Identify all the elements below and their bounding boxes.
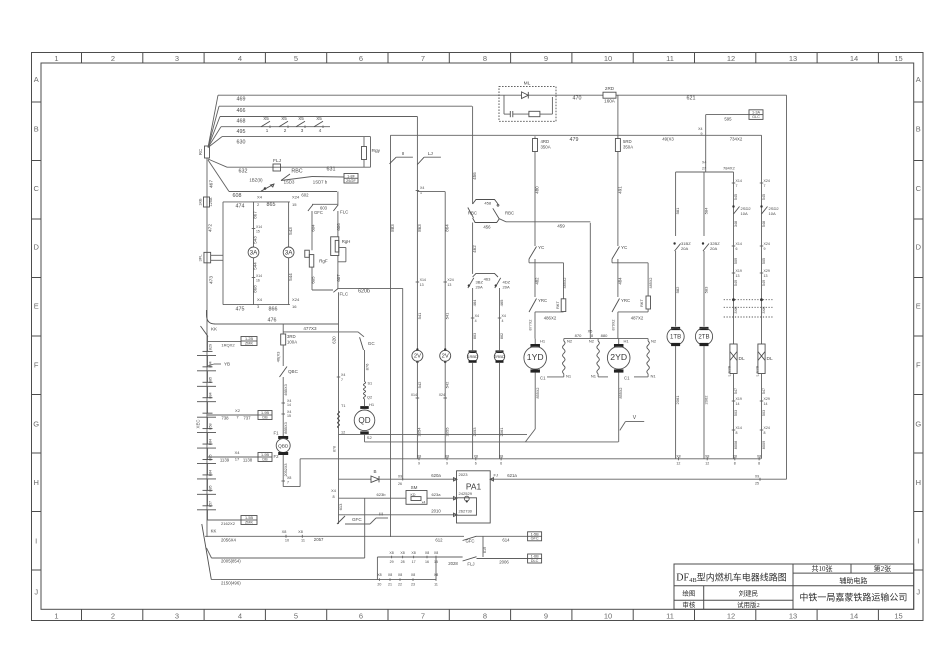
svg-text:GFC: GFC — [352, 517, 362, 522]
svg-text:465: 465 — [499, 299, 504, 307]
svg-text:G: G — [915, 420, 921, 429]
svg-text:456: 456 — [472, 172, 477, 180]
svg-text:X14: X14 — [736, 179, 742, 183]
svg-text:2RD: 2RD — [605, 86, 615, 91]
svg-text:29/2F: 29/2F — [346, 179, 356, 183]
svg-text:474: 474 — [236, 204, 245, 210]
svg-text:884: 884 — [209, 470, 213, 476]
svg-text:X14: X14 — [256, 225, 262, 229]
svg-text:864: 864 — [445, 224, 450, 232]
svg-text:503: 503 — [762, 410, 766, 416]
svg-text:X14: X14 — [411, 393, 417, 397]
svg-text:863: 863 — [473, 333, 477, 339]
svg-text:X5: X5 — [588, 330, 593, 334]
svg-text:46BX3: 46BX3 — [284, 384, 288, 395]
svg-text:545: 545 — [734, 194, 738, 200]
svg-text:YRC: YRC — [538, 298, 547, 303]
svg-text:544: 544 — [253, 262, 258, 270]
svg-text:855X2: 855X2 — [619, 388, 623, 399]
svg-text:1BZ(9): 1BZ(9) — [249, 178, 263, 183]
svg-text:475: 475 — [236, 307, 245, 313]
svg-text:第2张: 第2张 — [874, 564, 892, 573]
svg-text:X5: X5 — [298, 116, 304, 121]
svg-text:49(X3: 49(X3 — [662, 137, 674, 142]
svg-text:F: F — [916, 361, 921, 370]
svg-text:8: 8 — [483, 54, 487, 63]
svg-text:FLC: FLC — [340, 292, 349, 297]
svg-text:Rgy: Rgy — [372, 148, 381, 154]
svg-text:11: 11 — [301, 539, 305, 543]
svg-text:X4: X4 — [702, 161, 706, 165]
svg-text:863: 863 — [417, 224, 422, 232]
svg-text:X8: X8 — [377, 573, 381, 577]
svg-text:X8: X8 — [434, 551, 438, 555]
svg-text:7: 7 — [421, 54, 425, 63]
svg-text:2056X4: 2056X4 — [221, 538, 236, 543]
svg-text:16: 16 — [256, 279, 260, 283]
svg-text:X4: X4 — [341, 373, 345, 377]
svg-text:2053: 2053 — [472, 427, 477, 437]
svg-text:877X2: 877X2 — [529, 320, 533, 331]
svg-text:GFC: GFC — [314, 210, 323, 215]
svg-text:480: 480 — [535, 186, 540, 194]
svg-text:H1: H1 — [369, 402, 375, 407]
svg-text:623a: 623a — [431, 492, 441, 497]
svg-text:FLJ: FLJ — [273, 158, 282, 164]
svg-text:DLC: DLC — [531, 559, 539, 563]
svg-text:29: 29 — [390, 560, 394, 564]
svg-text:SM: SM — [411, 485, 418, 490]
svg-text:544: 544 — [288, 273, 293, 281]
svg-text:X8: X8 — [425, 551, 429, 555]
svg-text:15: 15 — [292, 202, 297, 207]
svg-text:1SD3: 1SD3 — [284, 180, 295, 185]
svg-text:12: 12 — [727, 54, 735, 63]
svg-text:548: 548 — [762, 221, 766, 227]
svg-text:11: 11 — [666, 611, 674, 620]
svg-text:X8: X8 — [445, 455, 449, 459]
svg-text:A: A — [916, 75, 921, 84]
svg-text:86BX3: 86BX3 — [284, 422, 288, 433]
svg-text:2YD: 2YD — [610, 352, 627, 362]
svg-text:Q2: Q2 — [367, 396, 372, 400]
svg-text:X4: X4 — [502, 314, 506, 318]
svg-text:543: 543 — [253, 236, 258, 244]
svg-text:RBC: RBC — [505, 211, 514, 216]
svg-text:DL: DL — [739, 356, 745, 362]
svg-text:621: 621 — [687, 96, 696, 102]
svg-text:X4: X4 — [698, 127, 702, 131]
svg-text:549: 549 — [734, 280, 738, 286]
svg-text:5: 5 — [294, 611, 298, 620]
svg-text:1: 1 — [54, 54, 58, 63]
svg-text:486X2: 486X2 — [544, 316, 557, 321]
svg-text:QBD: QBD — [278, 443, 289, 449]
svg-text:LJ: LJ — [428, 151, 434, 157]
svg-text:880: 880 — [601, 333, 609, 338]
svg-text:784X2: 784X2 — [723, 166, 735, 171]
svg-text:X19: X19 — [736, 269, 742, 273]
svg-text:2V: 2V — [442, 354, 449, 360]
svg-text:12: 12 — [705, 462, 709, 466]
svg-text:X9: X9 — [398, 475, 402, 479]
svg-text:485X2: 485X2 — [649, 278, 653, 289]
svg-text:x4: x4 — [422, 501, 426, 505]
svg-text:608: 608 — [233, 193, 242, 199]
svg-text:3A: 3A — [285, 249, 294, 256]
svg-text:1: 1 — [266, 128, 269, 133]
svg-text:X9: X9 — [755, 474, 759, 478]
svg-text:1YD: 1YD — [527, 352, 544, 362]
svg-text:8008: 8008 — [734, 441, 738, 449]
svg-text:15: 15 — [256, 230, 260, 234]
svg-text:X5: X5 — [263, 116, 269, 121]
svg-text:876: 876 — [364, 363, 369, 371]
svg-text:I: I — [917, 537, 919, 546]
svg-text:495: 495 — [237, 129, 246, 135]
svg-text:X24: X24 — [764, 426, 770, 430]
svg-text:20A: 20A — [503, 284, 511, 289]
svg-text:487X2: 487X2 — [631, 316, 644, 321]
svg-text:绘图: 绘图 — [682, 589, 695, 598]
svg-text:10: 10 — [604, 54, 612, 63]
svg-text:10A: 10A — [741, 211, 749, 216]
svg-text:1138: 1138 — [243, 458, 253, 463]
svg-text:YC: YC — [621, 245, 628, 250]
svg-text:584: 584 — [704, 207, 709, 215]
svg-text:X8: X8 — [282, 530, 287, 534]
svg-text:1TB: 1TB — [670, 334, 681, 341]
svg-text:C1: C1 — [624, 376, 630, 381]
svg-text:14: 14 — [736, 402, 740, 406]
svg-text:F1: F1 — [273, 431, 279, 436]
svg-text:J: J — [34, 588, 38, 597]
svg-text:X8: X8 — [705, 455, 709, 459]
svg-text:9: 9 — [446, 462, 448, 466]
svg-text:YRC: YRC — [621, 298, 630, 303]
svg-text:X4: X4 — [331, 489, 336, 493]
svg-text:X5: X5 — [316, 116, 322, 121]
svg-text:DL: DL — [767, 356, 773, 362]
svg-text:8: 8 — [764, 431, 766, 435]
svg-text:7: 7 — [287, 481, 289, 485]
svg-text:13: 13 — [789, 611, 797, 620]
svg-text:X24: X24 — [292, 297, 300, 302]
svg-text:2057: 2057 — [314, 537, 324, 542]
svg-text:14: 14 — [764, 402, 768, 406]
svg-text:829: 829 — [209, 344, 213, 350]
svg-text:9: 9 — [544, 54, 548, 63]
svg-text:PA1: PA1 — [466, 482, 482, 492]
svg-text:541: 541 — [445, 312, 450, 320]
svg-text:350A: 350A — [541, 145, 551, 150]
svg-text:20: 20 — [377, 582, 381, 586]
svg-text:试用版2: 试用版2 — [737, 600, 760, 609]
svg-text:242529: 242529 — [459, 491, 473, 496]
svg-text:1KB: 1KB — [199, 198, 203, 206]
svg-text:547: 547 — [734, 388, 738, 394]
svg-text:4: 4 — [319, 128, 322, 133]
svg-text:484: 484 — [618, 277, 623, 285]
svg-text:477X3: 477X3 — [303, 326, 317, 331]
svg-text:X24: X24 — [764, 242, 770, 246]
svg-text:621a: 621a — [507, 473, 517, 478]
svg-text:542: 542 — [445, 381, 450, 389]
svg-text:9: 9 — [764, 247, 766, 251]
svg-text:X29: X29 — [764, 269, 770, 273]
svg-text:604: 604 — [310, 224, 315, 232]
svg-text:N2: N2 — [589, 339, 595, 344]
svg-text:QD: QD — [358, 416, 370, 425]
svg-text:503: 503 — [734, 410, 738, 416]
svg-text:X8: X8 — [389, 551, 393, 555]
svg-text:13: 13 — [736, 274, 740, 278]
svg-text:602: 602 — [301, 193, 309, 198]
svg-text:B: B — [916, 125, 921, 134]
svg-text:9: 9 — [418, 462, 420, 466]
svg-text:630: 630 — [237, 140, 246, 146]
svg-text:603: 603 — [320, 205, 328, 210]
svg-text:RBC: RBC — [468, 211, 477, 216]
svg-text:ZMK: ZMK — [245, 341, 253, 345]
svg-text:623b: 623b — [376, 492, 386, 497]
svg-text:878: 878 — [333, 446, 337, 452]
svg-text:10: 10 — [604, 611, 612, 620]
svg-text:867: 867 — [253, 211, 258, 219]
svg-text:20A: 20A — [681, 246, 689, 251]
svg-text:LJ779: LJ779 — [728, 366, 732, 376]
svg-text:X4: X4 — [235, 450, 241, 455]
svg-text:5RD: 5RD — [623, 139, 632, 144]
svg-text:11: 11 — [666, 54, 674, 63]
svg-text:X24: X24 — [764, 179, 770, 183]
svg-text:16: 16 — [425, 560, 429, 564]
svg-text:S1: S1 — [368, 382, 373, 386]
svg-text:885: 885 — [209, 485, 213, 491]
svg-text:12: 12 — [676, 462, 680, 466]
svg-text:X8: X8 — [388, 573, 392, 577]
svg-text:ML: ML — [524, 81, 531, 87]
svg-text:7: 7 — [421, 611, 425, 620]
svg-text:858: 858 — [209, 423, 213, 429]
svg-text:D: D — [33, 243, 39, 252]
svg-text:456: 456 — [483, 224, 491, 229]
svg-text:13: 13 — [764, 274, 768, 278]
svg-text:612: 612 — [435, 538, 443, 543]
svg-text:26: 26 — [398, 482, 402, 486]
svg-text:476: 476 — [268, 318, 277, 324]
svg-text:613: 613 — [338, 503, 343, 511]
svg-text:1: 1 — [54, 611, 58, 620]
svg-text:2: 2 — [111, 54, 115, 63]
svg-text:5: 5 — [294, 54, 298, 63]
svg-text:2023: 2023 — [459, 472, 469, 477]
svg-text:6: 6 — [500, 462, 502, 466]
svg-text:3: 3 — [301, 128, 304, 133]
svg-text:868: 868 — [253, 285, 258, 293]
svg-text:3RD: 3RD — [287, 334, 296, 339]
svg-text:632: 632 — [239, 169, 248, 175]
svg-text:595: 595 — [724, 117, 732, 122]
svg-text:884: 884 — [209, 439, 213, 445]
svg-text:2006: 2006 — [499, 560, 509, 565]
svg-text:RBC: RBC — [291, 169, 302, 175]
svg-text:3A: 3A — [250, 249, 259, 256]
svg-text:2052X3: 2052X3 — [284, 463, 288, 476]
svg-text:17: 17 — [235, 457, 240, 462]
svg-text:884: 884 — [209, 392, 213, 398]
svg-text:1-3A: 1-3A — [752, 111, 760, 115]
svg-text:X4: X4 — [475, 314, 479, 318]
svg-text:刘建民: 刘建民 — [739, 589, 759, 598]
svg-text:348: 348 — [734, 221, 738, 227]
svg-text:D: D — [916, 243, 922, 252]
svg-text:中铁一局嘉蒙铁路运输公司: 中铁一局嘉蒙铁路运输公司 — [799, 592, 907, 603]
svg-text:12: 12 — [341, 431, 345, 435]
svg-text:25: 25 — [755, 482, 759, 486]
svg-text:2: 2 — [111, 611, 115, 620]
svg-text:10: 10 — [285, 539, 289, 543]
svg-text:RC: RC — [198, 149, 203, 155]
svg-text:共10张: 共10张 — [812, 564, 833, 573]
svg-text:2TB: 2TB — [698, 334, 709, 341]
svg-text:473: 473 — [209, 276, 215, 284]
svg-text:458: 458 — [484, 201, 492, 206]
svg-text:YB: YB — [224, 362, 230, 367]
svg-text:E: E — [34, 302, 39, 311]
svg-text:549: 549 — [762, 280, 766, 286]
svg-text:870: 870 — [575, 333, 583, 338]
svg-text:541: 541 — [417, 312, 422, 320]
svg-text:FLJ: FLJ — [467, 562, 474, 567]
svg-text:辅助电路: 辅助电路 — [839, 576, 867, 585]
svg-text:RKT: RKT — [640, 299, 644, 307]
svg-text:469: 469 — [237, 97, 246, 103]
svg-text:738: 738 — [221, 416, 229, 421]
svg-text:2055: 2055 — [445, 427, 450, 437]
svg-text:3FL: 3FL — [198, 254, 203, 262]
svg-text:X4: X4 — [420, 186, 424, 190]
svg-text:482: 482 — [535, 277, 540, 285]
svg-text:GC: GC — [368, 341, 376, 346]
svg-text:262730: 262730 — [459, 508, 473, 513]
svg-text:470: 470 — [573, 96, 582, 102]
svg-text:21: 21 — [388, 582, 392, 586]
svg-text:620a: 620a — [431, 473, 441, 478]
svg-text:466: 466 — [237, 108, 246, 114]
svg-text:606: 606 — [336, 223, 341, 231]
svg-text:8: 8 — [332, 495, 334, 499]
svg-text:RgH: RgH — [342, 239, 351, 244]
svg-text:T1: T1 — [341, 404, 345, 408]
svg-text:4: 4 — [238, 54, 242, 63]
svg-text:4RD: 4RD — [541, 139, 550, 144]
svg-text:2: 2 — [284, 128, 287, 133]
svg-text:H1: H1 — [624, 339, 630, 344]
svg-text:14: 14 — [850, 611, 858, 620]
svg-text:7: 7 — [341, 378, 343, 382]
svg-text:125A: 125A — [209, 197, 213, 206]
svg-text:2V: 2V — [414, 354, 421, 360]
svg-text:15: 15 — [287, 414, 291, 418]
svg-text:2005(854): 2005(854) — [221, 559, 241, 564]
svg-text:X8: X8 — [287, 476, 291, 480]
svg-text:YC: YC — [538, 245, 545, 250]
svg-text:X5: X5 — [281, 116, 287, 121]
svg-text:X14: X14 — [736, 242, 742, 246]
svg-text:619: 619 — [483, 547, 487, 553]
svg-text:8: 8 — [483, 611, 487, 620]
svg-text:6: 6 — [475, 462, 477, 466]
svg-text:审核: 审核 — [682, 600, 696, 609]
svg-text:H: H — [916, 478, 921, 487]
svg-text:2054: 2054 — [417, 427, 422, 437]
svg-text:N2: N2 — [567, 339, 573, 344]
svg-text:857: 857 — [209, 501, 213, 507]
svg-text:RKT: RKT — [556, 301, 560, 309]
svg-text:885: 885 — [209, 377, 213, 383]
svg-text:350A: 350A — [623, 145, 633, 150]
svg-text:4: 4 — [475, 319, 477, 323]
svg-text:S2: S2 — [367, 435, 373, 440]
svg-text:472: 472 — [208, 224, 214, 232]
svg-text:FLC: FLC — [340, 210, 349, 215]
svg-text:14: 14 — [850, 54, 858, 63]
svg-text:3: 3 — [175, 611, 179, 620]
svg-text:14: 14 — [287, 403, 291, 407]
svg-text:GFC: GFC — [465, 539, 474, 544]
svg-text:9: 9 — [544, 611, 548, 620]
svg-text:464: 464 — [472, 299, 477, 307]
svg-text:2028: 2028 — [448, 561, 458, 566]
svg-text:X14: X14 — [420, 278, 426, 282]
svg-text:1-8F: 1-8F — [347, 174, 355, 178]
svg-text:X4: X4 — [257, 297, 263, 302]
svg-text:734X2: 734X2 — [730, 137, 743, 142]
svg-text:28: 28 — [401, 560, 405, 564]
svg-text:LJ779: LJ779 — [756, 366, 760, 376]
svg-text:463: 463 — [484, 277, 492, 282]
svg-text:H1: H1 — [540, 339, 546, 344]
svg-text:13: 13 — [447, 283, 451, 287]
svg-text:737: 737 — [243, 416, 251, 421]
svg-text:X8: X8 — [398, 573, 402, 577]
svg-text:479: 479 — [570, 137, 579, 143]
svg-text:X24: X24 — [439, 393, 445, 397]
svg-text:620b: 620b — [358, 289, 370, 295]
svg-text:III: III — [379, 512, 383, 517]
svg-text:467: 467 — [209, 180, 215, 188]
svg-text:H: H — [33, 478, 38, 487]
svg-text:G: G — [33, 420, 39, 429]
svg-text:865: 865 — [267, 202, 276, 208]
svg-text:485X2: 485X2 — [563, 278, 567, 289]
svg-text:15: 15 — [894, 611, 902, 620]
svg-text:100A: 100A — [287, 340, 297, 345]
svg-text:KK: KK — [211, 529, 217, 534]
svg-text:855X2: 855X2 — [536, 388, 540, 399]
svg-text:605: 605 — [310, 276, 315, 284]
svg-text:1139: 1139 — [220, 458, 230, 463]
svg-text:I: I — [35, 537, 37, 546]
svg-text:4: 4 — [238, 611, 242, 620]
svg-text:614: 614 — [502, 538, 510, 543]
svg-text:X8: X8 — [676, 455, 680, 459]
svg-text:ZMK: ZMK — [245, 520, 253, 524]
svg-text:II: II — [402, 151, 405, 157]
svg-text:2150(496): 2150(496) — [221, 580, 241, 585]
svg-text:6: 6 — [359, 611, 363, 620]
